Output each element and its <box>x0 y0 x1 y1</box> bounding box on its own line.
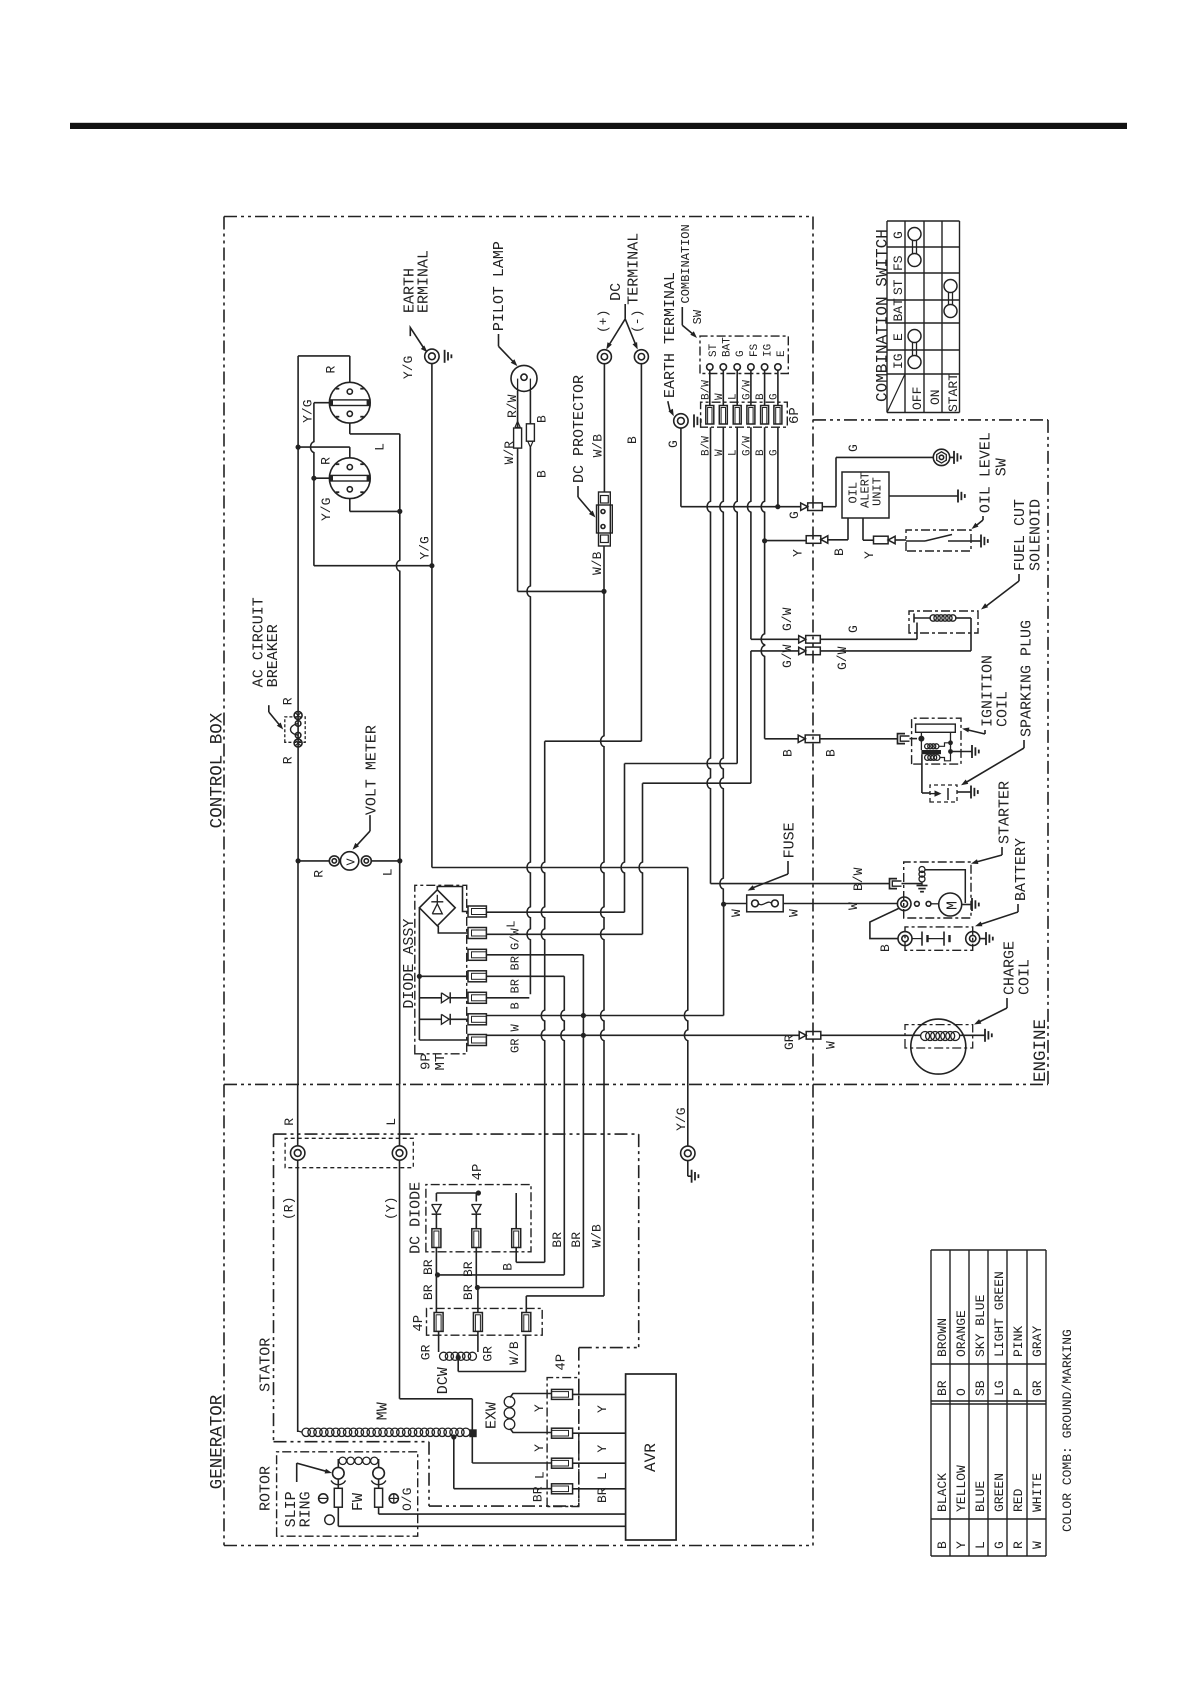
ground <box>971 745 973 758</box>
core bar <box>921 750 941 754</box>
svg-text:GR: GR <box>509 1039 523 1053</box>
9P pin 3 <box>468 949 486 960</box>
svg-text:AVR: AVR <box>642 1443 660 1472</box>
ground <box>980 535 982 548</box>
leader <box>498 334 500 346</box>
svg-text:G/W: G/W <box>780 607 795 631</box>
table diagonal <box>887 374 905 413</box>
svg-text:B: B <box>509 1002 523 1009</box>
svg-text:B: B <box>935 1541 950 1549</box>
wire BR2 <box>477 1287 583 1289</box>
pin E <box>775 364 781 370</box>
wire O <box>337 1507 339 1526</box>
DC terminal (-) <box>634 350 648 364</box>
svg-text:SPARKING PLUG: SPARKING PLUG <box>1019 620 1036 737</box>
svg-text:SOLENOID: SOLENOID <box>1028 499 1045 571</box>
svg-text:E: E <box>776 350 788 357</box>
connector G/W <box>806 636 821 644</box>
wire G/W to solenoid <box>751 638 799 640</box>
wire R vertical <box>297 356 299 861</box>
protector outer <box>599 492 611 546</box>
svg-text:RED: RED <box>1011 1488 1026 1512</box>
svg-text:SW: SW <box>691 309 705 324</box>
pin <box>432 1229 441 1248</box>
O hex mark <box>325 1515 335 1525</box>
resistor <box>514 428 522 448</box>
svg-text:W/B: W/B <box>590 551 605 575</box>
pin G <box>734 364 740 370</box>
terminal (R) <box>291 1146 305 1160</box>
svg-text:BR: BR <box>421 1284 436 1300</box>
generator earth terminal <box>681 1146 695 1160</box>
svg-text:DC PROTECTOR: DC PROTECTOR <box>571 375 588 483</box>
wire W/R <box>517 391 519 427</box>
svg-text:MT: MT <box>433 1054 449 1071</box>
svg-text:OIL LEVEL: OIL LEVEL <box>978 432 995 513</box>
9P pin 4 <box>468 971 486 982</box>
wire to pin7 <box>419 1039 468 1041</box>
solenoid coil <box>919 867 925 873</box>
svg-text:B: B <box>501 1263 516 1271</box>
diode mark <box>528 441 533 447</box>
diode <box>472 1205 482 1214</box>
wire W/B long <box>601 591 604 1296</box>
wire BR <box>486 954 583 956</box>
svg-text:BLUE: BLUE <box>973 1481 988 1512</box>
meter body <box>340 852 358 870</box>
svg-text:L: L <box>505 920 519 927</box>
svg-text:B: B <box>878 944 893 952</box>
9P pin 2 <box>468 928 486 939</box>
wire <box>940 752 951 761</box>
leader <box>1017 904 1019 912</box>
motor <box>939 893 962 916</box>
svg-text:R: R <box>324 366 339 374</box>
9P pin 6 <box>468 1014 486 1025</box>
svg-text:Y: Y <box>532 1444 547 1452</box>
svg-text:B/W: B/W <box>700 380 712 400</box>
pin IG <box>761 364 767 370</box>
wire L <box>399 1084 401 1146</box>
node BR2 <box>475 1285 480 1290</box>
wire Y/G down <box>431 566 433 868</box>
svg-text:R: R <box>312 870 327 878</box>
svg-text:Y: Y <box>595 1405 610 1413</box>
ground <box>957 490 959 503</box>
svg-text:BR: BR <box>421 1259 436 1275</box>
ground <box>953 451 955 464</box>
wire BR col1 <box>435 1248 437 1313</box>
unit B lead <box>847 518 849 540</box>
wire Y/G <box>684 868 687 1147</box>
ground <box>691 1170 693 1183</box>
svg-text:G/W: G/W <box>780 644 795 668</box>
wire <box>750 651 752 783</box>
header rule <box>70 123 1127 129</box>
FW coil <box>339 1457 346 1464</box>
9P pin 7 <box>468 1035 486 1046</box>
wire BR2 <box>486 975 564 977</box>
svg-text:6P: 6P <box>787 407 803 424</box>
svg-text:W: W <box>729 909 744 917</box>
MW end terminal <box>470 1430 476 1437</box>
6P terminal <box>774 406 782 425</box>
wire to AVR <box>573 1432 626 1434</box>
svg-text:BR: BR <box>509 979 523 993</box>
connector W <box>806 1032 821 1040</box>
svg-text:Y: Y <box>595 1445 610 1453</box>
svg-text:FUSE: FUSE <box>782 822 799 858</box>
6P box <box>701 402 788 427</box>
pin <box>552 1389 573 1399</box>
svg-text:OFF: OFF <box>910 387 925 410</box>
svg-text:BR: BR <box>461 1284 476 1300</box>
9P pin 5 <box>468 992 486 1003</box>
terminal <box>425 349 439 363</box>
node tap <box>456 1355 461 1360</box>
leader <box>1023 740 1025 748</box>
svg-text:DC: DC <box>608 283 625 301</box>
node <box>918 736 924 742</box>
svg-text:Y: Y <box>791 549 806 557</box>
svg-text:SW: SW <box>994 458 1011 476</box>
battery cells <box>921 932 923 946</box>
svg-text:L: L <box>381 868 396 876</box>
node <box>397 858 402 863</box>
svg-text:Y/G: Y/G <box>674 1107 689 1130</box>
svg-text:(-): (-) <box>630 310 645 333</box>
wire BR2 down <box>561 976 564 1275</box>
wire L lower <box>399 861 401 1085</box>
svg-text:DCW: DCW <box>435 1367 452 1394</box>
node <box>948 749 953 754</box>
svg-text:B: B <box>755 393 767 400</box>
wire L across <box>625 763 738 765</box>
pin FS <box>748 364 754 370</box>
svg-text:GR: GR <box>1030 1380 1045 1396</box>
terminal O <box>319 1494 328 1503</box>
svg-text:COMBINATION: COMBINATION <box>679 224 693 303</box>
pin <box>552 1484 573 1494</box>
svg-text:Y: Y <box>954 1541 969 1549</box>
oil level switch box <box>906 530 971 551</box>
wire Y/G <box>311 403 314 566</box>
svg-text:START: START <box>946 373 961 412</box>
node <box>296 858 301 863</box>
earth terminal 2 <box>674 414 688 428</box>
wire Y <box>765 540 807 542</box>
wire B/W <box>709 370 711 405</box>
svg-text:BR: BR <box>595 1487 610 1503</box>
svg-text:W: W <box>787 909 802 917</box>
wire <box>471 1399 473 1430</box>
wire to AVR <box>573 1393 626 1395</box>
pin <box>473 1313 482 1332</box>
wire B jog <box>545 740 642 742</box>
connector B/W tab <box>890 879 898 889</box>
diode <box>441 993 449 1003</box>
svg-text:FS: FS <box>891 255 906 271</box>
svg-text:B: B <box>535 415 550 423</box>
wire W/B <box>603 546 605 591</box>
AVR <box>626 1374 677 1540</box>
leader <box>1018 574 1020 581</box>
wire <box>477 1331 479 1352</box>
wire G to engine <box>778 506 801 508</box>
wire B ig <box>761 427 764 739</box>
connector Y <box>806 536 821 544</box>
leader <box>410 328 423 348</box>
leader <box>982 516 984 520</box>
node G <box>775 504 780 509</box>
brush 1 <box>334 1488 342 1507</box>
svg-text:G/W: G/W <box>509 928 523 950</box>
svg-text:ENGINE: ENGINE <box>1031 1019 1051 1082</box>
svg-text:ERMINAL: ERMINAL <box>416 250 433 313</box>
leader <box>668 401 670 410</box>
connector B border <box>805 735 820 743</box>
svg-text:BR: BR <box>569 1232 584 1248</box>
wire Y/G main <box>431 364 433 566</box>
wire <box>920 732 922 750</box>
svg-text:ST: ST <box>708 343 720 357</box>
svg-text:GRAY: GRAY <box>1030 1326 1045 1357</box>
plug electrode <box>930 793 935 795</box>
svg-text:PINK: PINK <box>1011 1326 1026 1357</box>
leader <box>787 861 789 874</box>
pilot lamp connect wire <box>518 590 604 592</box>
wire R to receptacle 2 <box>298 446 350 448</box>
leader <box>577 486 579 497</box>
wire <box>349 356 351 382</box>
terminal x <box>294 711 302 719</box>
wire L down <box>621 764 624 913</box>
svg-text:R: R <box>281 697 296 705</box>
6P terminal <box>706 406 714 425</box>
wire G <box>777 370 779 405</box>
svg-text:COIL: COIL <box>995 691 1012 727</box>
svg-text:BLACK: BLACK <box>935 1473 950 1512</box>
node BR1 <box>435 1272 440 1277</box>
connector Y2 <box>874 536 889 544</box>
wire G <box>680 428 682 507</box>
wire W <box>720 427 723 904</box>
pin BAT <box>720 364 726 370</box>
svg-text:GREEN: GREEN <box>992 1473 1007 1512</box>
svg-text:BREAKER: BREAKER <box>265 624 282 687</box>
svg-text:BROWN: BROWN <box>935 1318 950 1357</box>
leader <box>681 307 683 325</box>
ground <box>985 932 987 945</box>
wire <box>438 926 468 933</box>
svg-text:4P: 4P <box>470 1164 486 1181</box>
svg-text:4P: 4P <box>411 1315 427 1332</box>
svg-text:P: P <box>1011 1388 1026 1396</box>
wire BR <box>453 1437 455 1489</box>
svg-text:(R): (R) <box>282 1197 297 1220</box>
pilot lamp <box>511 365 537 391</box>
svg-text:E: E <box>891 333 906 341</box>
control box / generator divider <box>224 1083 1048 1085</box>
pin ST <box>707 364 713 370</box>
svg-text:FW: FW <box>350 1493 367 1511</box>
node <box>948 740 953 745</box>
wire <box>349 447 351 458</box>
svg-text:Y/G: Y/G <box>319 498 334 521</box>
svg-text:UNIT: UNIT <box>871 477 885 506</box>
wire <box>510 1429 552 1433</box>
wire R <box>297 1084 299 1146</box>
wire R top feed <box>298 355 350 357</box>
svg-text:LIGHT GREEN: LIGHT GREEN <box>992 1271 1007 1357</box>
breaker S-curve <box>291 724 299 736</box>
pin <box>552 1458 573 1468</box>
svg-text:Y: Y <box>532 1404 547 1412</box>
wire B <box>764 370 766 405</box>
terminal (Y) <box>392 1146 406 1160</box>
svg-text:STATOR: STATOR <box>258 1338 275 1392</box>
wire Y/G bottom <box>314 565 432 567</box>
wire BR1 <box>438 1274 565 1276</box>
4P lower box <box>427 1308 543 1335</box>
wire O/G <box>378 1507 380 1514</box>
oil level switch body nut <box>933 449 949 465</box>
svg-text:G: G <box>992 1541 1007 1549</box>
6P terminal <box>761 406 769 425</box>
node MW tap <box>451 1434 456 1439</box>
svg-text:G: G <box>846 444 861 452</box>
EXW coil <box>504 1397 515 1408</box>
wire <box>298 860 329 862</box>
leader <box>296 1463 298 1482</box>
dc diodes <box>436 1192 478 1194</box>
ring terminal <box>361 856 371 866</box>
bridge diamond <box>419 890 455 926</box>
wire W <box>723 904 725 1015</box>
node <box>311 476 316 481</box>
stator top <box>274 1133 639 1135</box>
ground <box>984 1029 986 1042</box>
FW coil <box>337 1459 339 1467</box>
rotor box <box>277 1452 418 1536</box>
starter <box>904 862 971 918</box>
AC circuit breaker <box>285 717 305 742</box>
pin <box>552 1428 573 1438</box>
brushes <box>337 1479 339 1488</box>
svg-text:L: L <box>728 393 740 400</box>
wire to AVR <box>573 1462 626 1464</box>
svg-text:O/G: O/G <box>400 1488 415 1511</box>
svg-text:ROTOR: ROTOR <box>258 1466 275 1511</box>
wire B pilot <box>527 447 530 994</box>
svg-text:W: W <box>846 902 861 910</box>
svg-text:W/R: W/R <box>502 441 517 465</box>
svg-text:4P: 4P <box>554 1354 570 1371</box>
slip ring 1 <box>333 1467 345 1479</box>
wire BR down <box>582 955 584 1288</box>
generator box border <box>223 1084 225 1545</box>
svg-text:L: L <box>533 1471 548 1479</box>
svg-text:GR: GR <box>419 1344 434 1360</box>
svg-text:(Y): (Y) <box>384 1197 399 1220</box>
wire L <box>734 427 737 763</box>
wire W <box>722 370 724 405</box>
9P pin 1 <box>468 906 486 917</box>
wire B <box>529 391 531 424</box>
node <box>417 974 422 979</box>
leader <box>268 705 270 712</box>
slip ring 2 <box>373 1467 385 1479</box>
svg-text:ORANGE: ORANGE <box>954 1310 969 1357</box>
wire BR <box>454 1488 552 1490</box>
AC receptacle 2 <box>329 458 370 499</box>
node L tee <box>397 509 402 514</box>
svg-text:W: W <box>824 1041 839 1049</box>
svg-text:BR: BR <box>935 1380 950 1396</box>
svg-text:G: G <box>768 393 780 400</box>
svg-text:R: R <box>282 1118 297 1126</box>
starter terminal <box>897 897 911 911</box>
svg-text:PILOT LAMP: PILOT LAMP <box>491 241 508 331</box>
wire B pilot to pin5 <box>486 997 529 999</box>
leader <box>369 815 371 831</box>
wire L <box>736 370 738 405</box>
svg-text:EARTH TERMINAL: EARTH TERMINAL <box>662 272 679 398</box>
wire W/B link <box>526 1295 604 1297</box>
svg-text:B/W: B/W <box>851 867 866 891</box>
svg-text:W/B: W/B <box>590 1224 605 1248</box>
svg-text:DC DIODE: DC DIODE <box>408 1182 425 1254</box>
wire <box>371 860 400 862</box>
svg-text:SB: SB <box>973 1380 988 1396</box>
AC receptacle 1 <box>329 382 370 423</box>
OFF row contacts IG-E <box>908 356 921 369</box>
START row contacts BAT-ST <box>944 305 957 318</box>
wire GR-W <box>486 1034 799 1036</box>
svg-text:O: O <box>954 1388 969 1396</box>
diode assy box <box>415 885 467 1054</box>
svg-text:L: L <box>373 443 388 451</box>
switch pole <box>906 540 925 542</box>
svg-text:DIODE ASSY: DIODE ASSY <box>401 919 418 1009</box>
wire G/W return <box>751 650 799 652</box>
wire <box>477 1288 479 1313</box>
svg-text:LG: LG <box>992 1380 1007 1396</box>
wire L to diode assy <box>486 911 624 913</box>
svg-text:Y/G: Y/G <box>401 356 416 379</box>
connector G/W return <box>806 647 821 655</box>
wire B link <box>516 1261 545 1263</box>
svg-text:GENERATOR: GENERATOR <box>208 1394 228 1489</box>
ground <box>970 786 972 799</box>
diode body <box>526 424 534 441</box>
svg-text:Y/G: Y/G <box>418 536 433 559</box>
control box border <box>224 216 813 218</box>
svg-text:EXW: EXW <box>484 1402 501 1429</box>
wire rail <box>419 908 468 977</box>
wire <box>939 743 951 747</box>
svg-text:W: W <box>714 393 726 400</box>
wire R lower <box>297 861 299 1085</box>
wire R to MW <box>297 1160 299 1432</box>
motor housing <box>925 870 966 903</box>
ground <box>444 350 446 363</box>
wire <box>510 1394 552 1398</box>
6P terminal <box>747 406 755 425</box>
wire to AVR <box>338 1525 625 1527</box>
ring terminal <box>329 856 339 866</box>
diode <box>432 1205 442 1214</box>
